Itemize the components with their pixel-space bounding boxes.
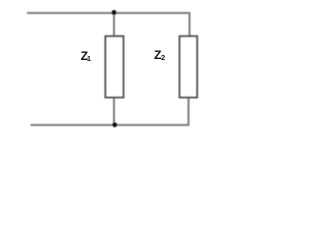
wire right vertical (top rail to Z2) [189, 12, 191, 36]
wire Z1 top stub [113, 13, 115, 37]
junction node bottom [112, 122, 117, 127]
impedance Z2 (box) [180, 36, 198, 97]
wire Z1 bottom stub [113, 97, 115, 125]
wire Z2 bottom stub [188, 97, 190, 125]
wire top rail [27, 12, 190, 14]
wire bottom rail [31, 124, 190, 126]
junction node top [112, 10, 117, 15]
svg-text:Z2: Z2 [154, 48, 165, 62]
svg-text:Z1: Z1 [81, 49, 91, 63]
impedance Z1 (box) [105, 36, 123, 97]
